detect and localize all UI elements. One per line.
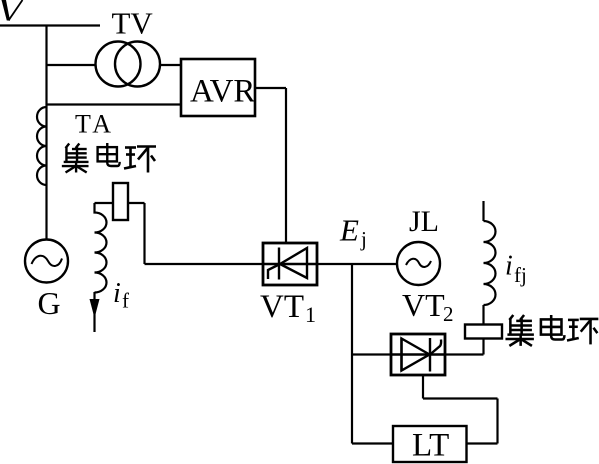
svg-text:i: i [505, 251, 513, 282]
svg-text:f: f [122, 289, 129, 313]
svg-text:LT: LT [412, 428, 449, 464]
svg-text:VT: VT [260, 289, 304, 325]
svg-text:TV: TV [112, 6, 154, 41]
svg-text:E: E [339, 213, 359, 248]
svg-text:AVR: AVR [190, 74, 255, 110]
svg-text:1: 1 [305, 302, 316, 327]
svg-text:VT: VT [402, 287, 445, 323]
svg-text:fj: fj [514, 263, 527, 287]
svg-text:2: 2 [443, 302, 454, 326]
svg-text:TA: TA [75, 110, 115, 139]
svg-text:G: G [38, 285, 61, 321]
svg-text:i: i [113, 278, 121, 309]
svg-text:j: j [360, 227, 367, 251]
svg-text:JL: JL [409, 205, 439, 238]
